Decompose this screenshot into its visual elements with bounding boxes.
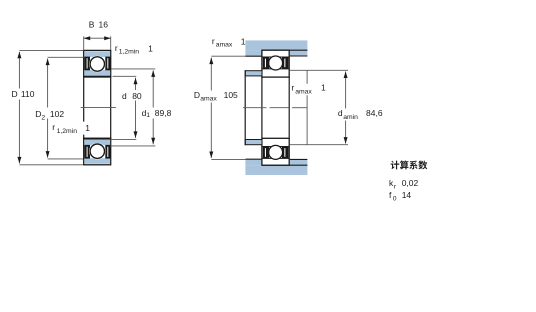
svg-text:1: 1	[241, 36, 246, 46]
ball	[90, 144, 104, 158]
D arrow down	[17, 157, 21, 164]
svg-text:d: d	[122, 91, 127, 101]
label damin 84,6	[336, 109, 388, 121]
d1 ext top	[111, 68, 155, 70]
seal lower band	[84, 140, 110, 146]
svg-text:1: 1	[85, 123, 90, 133]
bore cylinder right edge	[110, 77, 112, 138]
label d 80	[121, 90, 144, 101]
d1 dimension line	[152, 70, 154, 144]
ball halo	[89, 56, 106, 73]
Damax ext bottom	[211, 158, 245, 160]
damin dimension line	[345, 72, 347, 144]
svg-text:D: D	[194, 90, 200, 100]
ball halo	[89, 143, 106, 160]
svg-text:D: D	[12, 89, 18, 99]
svg-text:amax: amax	[200, 96, 217, 103]
seal lip left	[84, 57, 90, 71]
Damax ext top	[211, 55, 245, 57]
svg-text:89,8: 89,8	[155, 108, 172, 118]
seal left	[263, 57, 269, 68]
svg-text:d: d	[338, 108, 343, 118]
outer ring (left view, half)	[84, 50, 111, 77]
inner ring boundary	[262, 68, 289, 70]
seal upper band	[84, 158, 110, 164]
svg-text:80: 80	[132, 91, 142, 101]
D ext bottom	[19, 164, 83, 166]
svg-text:r: r	[52, 122, 55, 132]
seal lip left	[84, 145, 90, 159]
damin ext top	[289, 69, 348, 71]
seal left	[263, 147, 269, 158]
svg-text:110: 110	[21, 89, 35, 99]
label Damax 105	[192, 91, 244, 103]
svg-text:0: 0	[393, 195, 397, 202]
D dimension line	[18, 52, 20, 164]
outer ring boundary	[262, 56, 289, 58]
outer ring (left view, half)	[84, 138, 111, 165]
svg-text:r: r	[212, 36, 215, 46]
svg-text:14: 14	[402, 190, 412, 200]
D arrow up	[17, 52, 21, 59]
shaft left edge	[244, 70, 246, 145]
svg-text:105: 105	[224, 90, 238, 100]
label D 110	[9, 89, 39, 100]
housing upper block	[245, 165, 307, 175]
outer ring boundary	[262, 157, 289, 159]
svg-text:r: r	[115, 43, 118, 53]
shaft shoulder strip	[245, 71, 262, 76]
svg-text:1: 1	[321, 83, 326, 93]
bearing bore silhouette left	[261, 77, 263, 138]
d1 ext bottom	[110, 145, 155, 147]
B extension line right	[110, 36, 112, 49]
svg-text:102: 102	[50, 109, 64, 119]
svg-text:1,2min: 1,2min	[57, 128, 78, 135]
D ext top	[19, 49, 83, 51]
housing shoulder line left	[245, 158, 262, 160]
axis line left view	[81, 107, 116, 109]
svg-text:B: B	[89, 20, 95, 30]
bore line	[83, 138, 111, 140]
label d1 89,8	[141, 108, 174, 119]
svg-text:1,2min: 1,2min	[119, 49, 140, 56]
housing shoulder right	[290, 50, 308, 56]
D2 ext top	[48, 56, 84, 58]
Damax arrow up	[209, 58, 213, 65]
svg-text:1: 1	[148, 43, 153, 53]
bearing outline	[262, 138, 289, 165]
B arrow right	[104, 36, 111, 40]
B arrow left	[84, 36, 91, 40]
B extension line left	[83, 36, 85, 49]
d arrow down	[134, 131, 138, 138]
svg-text:r: r	[291, 83, 294, 93]
svg-text:0,02: 0,02	[402, 178, 419, 188]
bore line	[83, 76, 111, 78]
housing shoulder left	[245, 50, 262, 56]
ball	[269, 56, 283, 70]
d1 arrow down	[151, 138, 155, 145]
housing bore line	[262, 49, 307, 51]
D2 arrow up	[46, 59, 50, 66]
housing upper block	[245, 40, 307, 50]
shaft shoulder strip	[245, 140, 262, 145]
damin ext bottom	[289, 144, 348, 146]
d dimension line	[135, 78, 137, 138]
seal right	[282, 57, 288, 68]
bore cylinder left edge	[83, 77, 85, 138]
axis line right view	[243, 107, 267, 109]
housing bore line	[262, 164, 307, 166]
d ext top	[113, 75, 137, 77]
d ext bottom	[111, 138, 137, 140]
seal right	[282, 147, 288, 158]
housing shoulder left	[245, 160, 262, 166]
D2 ext bottom	[48, 158, 83, 160]
seal upper band	[84, 51, 110, 57]
shaft/bearing right silhouette	[288, 77, 290, 138]
svg-text:1: 1	[146, 112, 150, 119]
D2 dimension line	[47, 59, 49, 158]
label ramax 1 (mid)	[291, 84, 326, 95]
housing shoulder right	[290, 160, 308, 166]
svg-text:amin: amin	[343, 114, 358, 121]
bearing outline	[262, 50, 289, 77]
d1 arrow up	[151, 70, 155, 77]
svg-text:amax: amax	[295, 88, 312, 95]
heading (Chinese: calculation factors)	[391, 161, 428, 170]
housing shoulder line right	[290, 55, 308, 57]
ball	[90, 57, 104, 71]
seal lip right	[105, 145, 111, 159]
svg-text:2: 2	[41, 115, 45, 122]
svg-text:16: 16	[99, 20, 109, 30]
D2 arrow down	[46, 151, 50, 158]
damin arrow down	[344, 137, 348, 144]
label D2 102	[34, 108, 64, 119]
svg-text:amax: amax	[216, 42, 233, 49]
Damax dimension line	[210, 58, 212, 158]
seal lip right	[105, 57, 111, 71]
damin arrow up	[344, 72, 348, 79]
inner ring boundary	[262, 146, 289, 148]
Damax arrow down	[209, 152, 213, 159]
svg-text:84,6: 84,6	[366, 108, 383, 118]
housing shoulder line left	[245, 55, 262, 57]
seal lower band	[84, 70, 110, 76]
ramax leader line	[306, 70, 308, 145]
ball	[269, 145, 283, 159]
d arrow up	[134, 78, 138, 85]
housing shoulder line right	[290, 158, 308, 160]
B dimension line	[84, 37, 111, 39]
